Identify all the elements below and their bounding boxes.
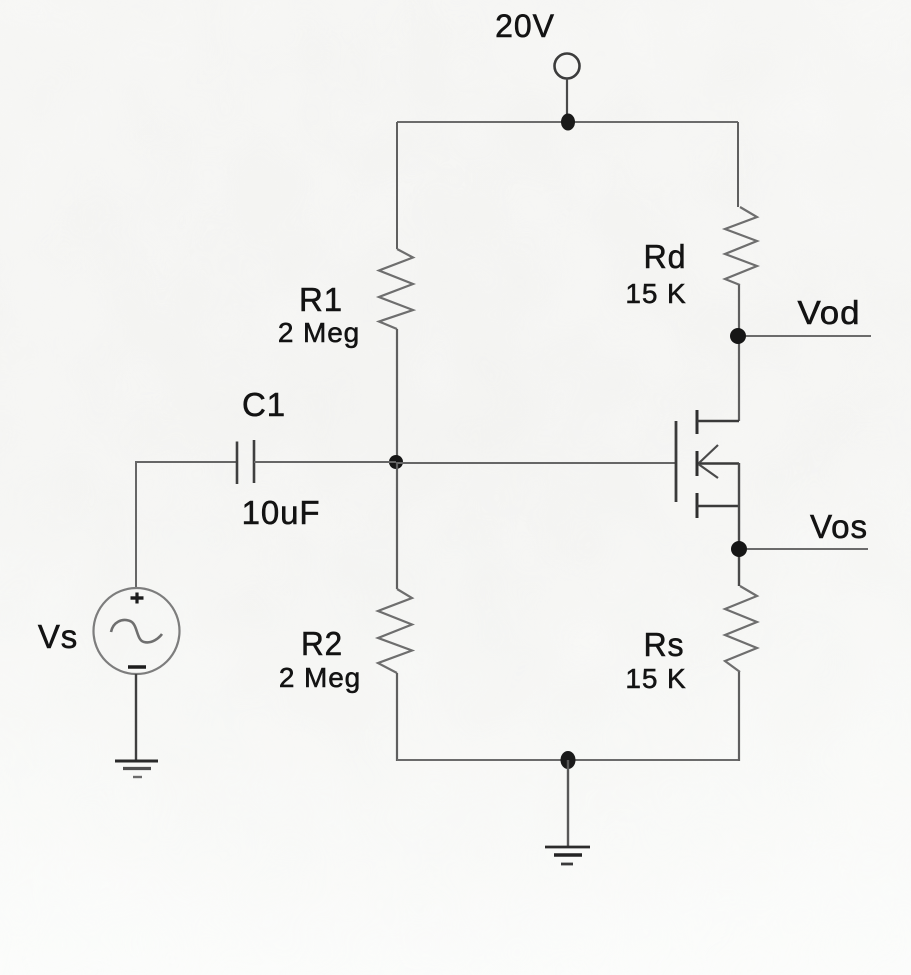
drain lead — [697, 420, 739, 423]
label 15 K (Rd value) — [625, 278, 686, 309]
Vs sine wave — [111, 620, 162, 642]
svg-text:2 Meg: 2 Meg — [279, 662, 361, 693]
gate bar — [675, 421, 678, 502]
wire left branch upper — [396, 122, 398, 249]
wire capacitor to gate node — [254, 461, 396, 463]
supply terminal circle — [555, 54, 580, 79]
svg-text:2 Meg: 2 Meg — [278, 317, 360, 348]
wire drain-source right vertical — [738, 463, 740, 586]
label C1 — [242, 386, 286, 423]
wire gate node to MOSFET gate — [397, 462, 676, 464]
label Vod — [798, 294, 861, 331]
resistor Rs — [725, 586, 757, 672]
wire left branch middle — [396, 329, 398, 462]
wire bottom rail to ground — [567, 760, 569, 847]
channel bar drain — [696, 410, 699, 434]
ground (Vs) — [115, 761, 158, 777]
node junction top rail — [561, 114, 575, 131]
body lead — [698, 462, 739, 465]
wire right branch top — [737, 122, 739, 207]
svg-text:Vod: Vod — [798, 294, 861, 331]
transistor Q1 (NMOS) — [676, 410, 739, 518]
wire top rail — [397, 121, 738, 123]
svg-text:Vs: Vs — [38, 618, 78, 655]
body arrow — [699, 445, 718, 463]
wire Vs to capacitor — [136, 462, 237, 588]
svg-text:Rd: Rd — [644, 238, 687, 275]
svg-text:C1: C1 — [242, 386, 286, 423]
label R2 — [301, 625, 343, 662]
resistor R2 — [378, 589, 412, 673]
source lead — [697, 505, 739, 508]
label 15 K (Rs value) — [625, 663, 686, 694]
channel bar source — [696, 493, 699, 518]
wire supply terminal to top rail — [566, 79, 568, 123]
wire Rs to bottom rail — [738, 672, 740, 761]
node gate junction — [389, 455, 403, 469]
label Vos — [810, 508, 868, 545]
svg-text:R2: R2 — [301, 625, 343, 662]
label 20V — [495, 8, 555, 44]
wire Rd to drain — [738, 285, 740, 421]
svg-text:Vos: Vos — [810, 508, 868, 545]
node Vod junction — [730, 328, 746, 344]
wire Vos tap — [747, 548, 868, 550]
label Rd — [644, 238, 687, 275]
label 2 Meg (R1 value) — [278, 317, 360, 348]
capacitor C1 — [237, 440, 254, 484]
svg-text:20V: 20V — [495, 8, 555, 44]
label 2 Meg (R2 value) — [279, 662, 361, 693]
Vs minus sign — [128, 665, 146, 668]
node Vos junction — [731, 541, 747, 557]
svg-text:15 K: 15 K — [625, 278, 686, 309]
svg-text:R1: R1 — [299, 281, 343, 318]
resistor R1 — [379, 249, 413, 329]
label Vs — [38, 618, 78, 655]
label 10uF — [242, 494, 321, 531]
channel bar body — [696, 451, 699, 476]
wire left branch lower — [396, 462, 398, 589]
label Rs — [644, 626, 685, 663]
wire Vod tap — [746, 335, 871, 337]
svg-text:10uF: 10uF — [242, 494, 321, 531]
svg-text:Rs: Rs — [644, 626, 685, 663]
node junction bottom rail — [561, 751, 576, 769]
label R1 — [299, 281, 343, 318]
wire Vs to ground — [135, 674, 137, 761]
source Vs circle — [94, 588, 180, 674]
wire left branch bottom — [396, 673, 398, 761]
svg-text:15 K: 15 K — [625, 663, 686, 694]
ground (center) — [545, 847, 590, 864]
wire bottom rail — [397, 759, 739, 761]
resistor Rd — [725, 207, 757, 285]
Vs plus sign — [131, 593, 144, 604]
